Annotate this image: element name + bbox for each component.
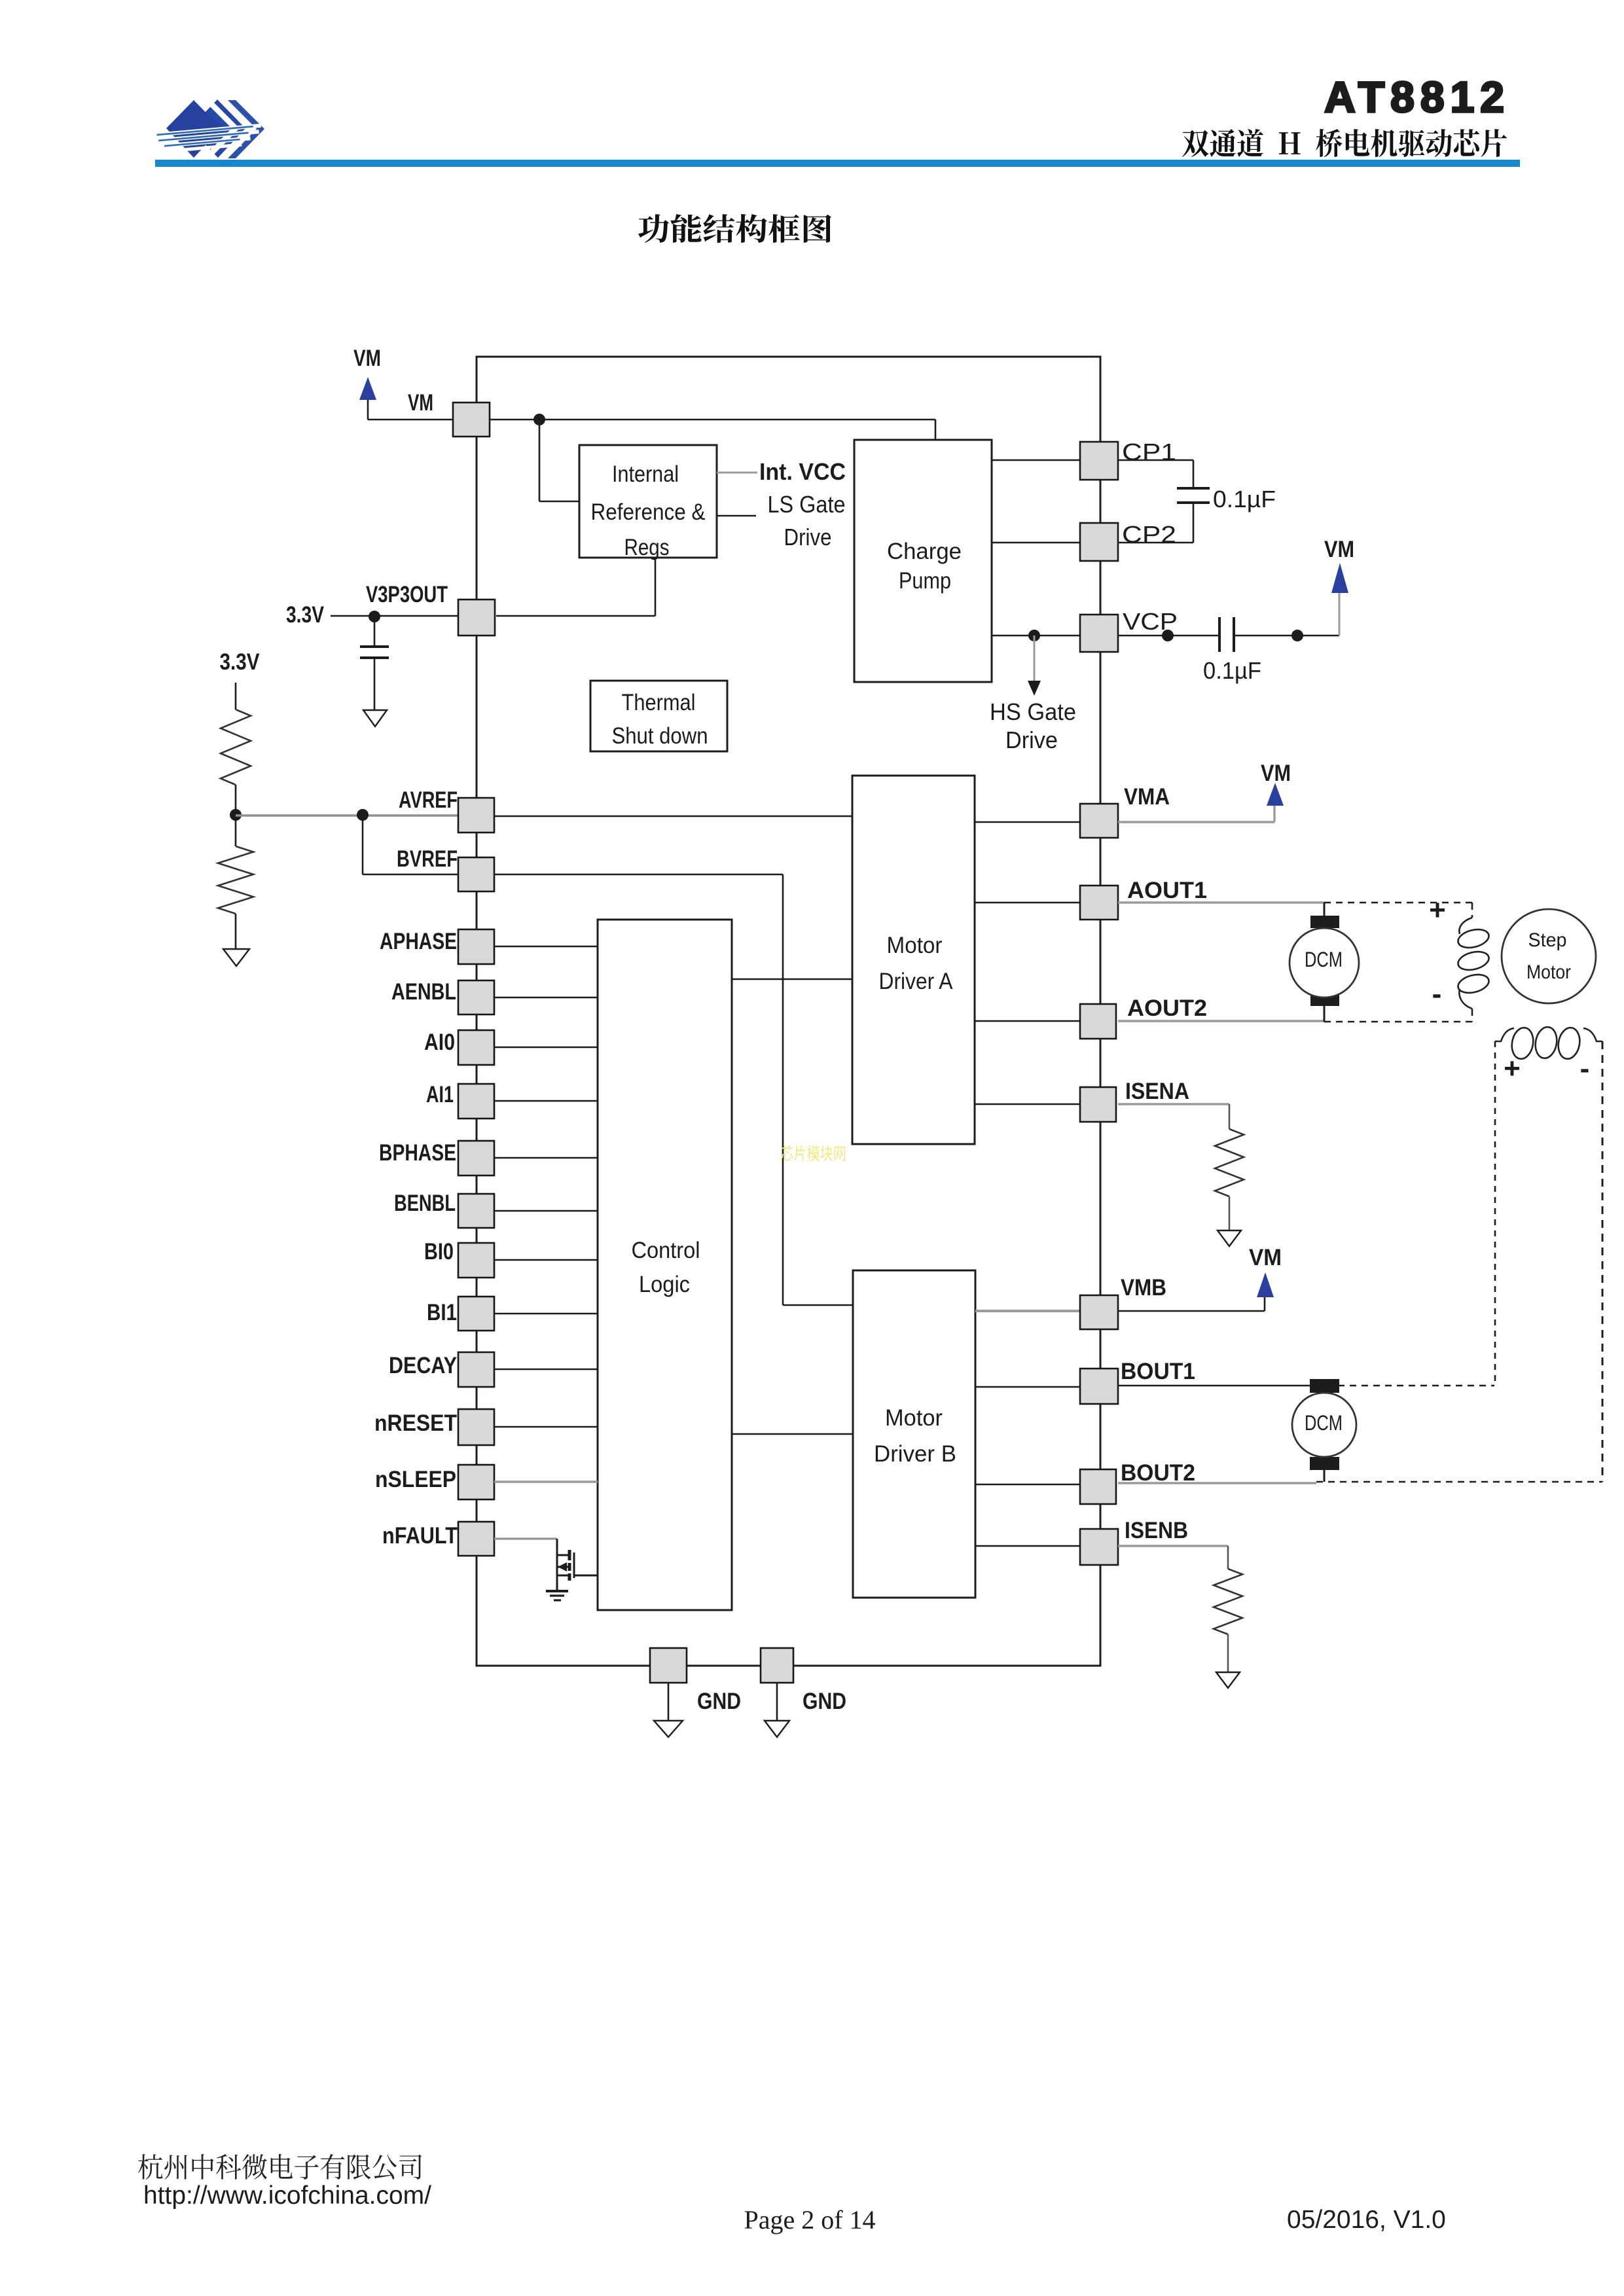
svg-text:AI1: AI1 xyxy=(426,1082,454,1107)
svg-text:3.3V: 3.3V xyxy=(286,602,325,628)
capacitor C1 (V3P3OUT bypass) xyxy=(374,617,376,647)
hs gate drive arrow xyxy=(1034,636,1036,682)
pin GND1 xyxy=(650,1648,687,1683)
pin nRESET xyxy=(458,1409,494,1445)
wire motor driver B to ISENB xyxy=(975,1545,1081,1547)
resistor R2 (lower divider) xyxy=(218,846,253,914)
wire AENBL to control logic xyxy=(494,997,598,999)
block U3 Charge Pump xyxy=(854,440,992,682)
node VM junction xyxy=(533,414,545,425)
wire motor driver B to BOUT1 xyxy=(975,1386,1080,1388)
motor Step Motor xyxy=(1502,909,1596,1003)
wire BENBL to control logic xyxy=(494,1210,598,1212)
svg-text:VMB: VMB xyxy=(1121,1275,1166,1300)
wire nSLEEP to control logic xyxy=(494,1480,598,1482)
wire AVREF pin to motor driver A xyxy=(494,816,852,817)
pin ISENA xyxy=(1080,1087,1116,1122)
block U1 Internal Reference and Regs xyxy=(579,445,717,558)
wire VM arrow to VM pin xyxy=(367,400,369,420)
svg-text:-: - xyxy=(1432,978,1442,1010)
watermark xyxy=(781,1145,845,1161)
wire dashed AOUT2 net xyxy=(1324,1021,1474,1022)
svg-text:VM: VM xyxy=(408,390,433,416)
resistor R3 (ISENA sense) xyxy=(1215,1129,1244,1196)
wire VMA to VM arrow xyxy=(1118,821,1274,823)
wire GND1 stem xyxy=(668,1683,670,1721)
wire nRESET to control logic xyxy=(494,1426,598,1428)
capacitor C3 (VCP-VM) xyxy=(1218,617,1221,652)
power VM arrow (VCP) xyxy=(1331,563,1348,593)
wire charge pump to VCP xyxy=(992,635,1080,637)
wire stub AOUT1 to DCM A xyxy=(1324,903,1326,916)
ground (R3) xyxy=(1218,1230,1241,1246)
pin AI1 xyxy=(458,1084,494,1119)
svg-text:Driver A: Driver A xyxy=(879,969,954,994)
wire 3.3V to V3P3OUT pin xyxy=(331,615,458,617)
wire motor driver A to AOUT2 xyxy=(975,1020,1080,1022)
wire R4 to ground xyxy=(1227,1634,1229,1672)
svg-text:3.3V: 3.3V xyxy=(220,649,261,675)
svg-text:Shut down: Shut down xyxy=(612,723,708,749)
pin VM xyxy=(453,403,490,437)
wire 3.3V to R1 xyxy=(235,683,237,709)
svg-text:AI0: AI0 xyxy=(424,1030,455,1055)
svg-text:AOUT2: AOUT2 xyxy=(1127,996,1207,1021)
wire control logic to motor driver A xyxy=(732,978,852,980)
wire R2 to ground xyxy=(235,914,237,949)
inductor winding B xyxy=(1495,1026,1602,1061)
svg-text:VM: VM xyxy=(1324,537,1354,562)
wire BI1 to control logic xyxy=(494,1313,598,1315)
svg-text:Reference &: Reference & xyxy=(591,499,706,525)
pin BI1 xyxy=(458,1297,494,1331)
company logo xyxy=(155,98,264,160)
block U5 Control Logic xyxy=(598,920,732,1610)
wire nFAULT to transistor Q1 xyxy=(494,1537,557,1539)
svg-text:VM: VM xyxy=(353,346,381,371)
pin BOUT1 xyxy=(1080,1369,1118,1404)
svg-text:Motor: Motor xyxy=(887,933,943,958)
pin AVREF xyxy=(458,798,494,833)
pin BENBL xyxy=(458,1194,494,1228)
wire AOUT1 to motor xyxy=(1118,901,1324,903)
pin VCP xyxy=(1080,615,1118,652)
wire VCP to capacitor C3 xyxy=(1118,635,1219,637)
wire BI0 to control logic xyxy=(494,1259,598,1261)
svg-text:Motor: Motor xyxy=(885,1405,943,1431)
pin AOUT1 xyxy=(1080,886,1118,920)
pin CP2 xyxy=(1080,523,1118,561)
wire motor driver A to AOUT1 xyxy=(975,902,1080,904)
svg-text:BI0: BI0 xyxy=(424,1239,454,1265)
svg-text:Drive: Drive xyxy=(1005,726,1058,753)
page title 功能结构框图 xyxy=(638,214,831,243)
svg-text:HS Gate: HS Gate xyxy=(990,698,1076,725)
svg-text:GND: GND xyxy=(803,1689,846,1714)
wire C3 to VM arrow xyxy=(1235,635,1339,637)
wire motor driver A to VMA xyxy=(975,821,1081,823)
wire motor driver B to BOUT2 xyxy=(975,1484,1080,1486)
pin APHASE xyxy=(458,929,494,964)
svg-text:AVREF: AVREF xyxy=(399,787,458,813)
svg-text:Drive: Drive xyxy=(784,524,832,550)
wire Int VCC output xyxy=(717,472,757,474)
node divider tap xyxy=(230,809,242,821)
svg-text:BOUT2: BOUT2 xyxy=(1121,1460,1195,1486)
wire dashed winding B left xyxy=(1494,1041,1496,1386)
pin nSLEEP xyxy=(458,1465,494,1499)
svg-text:BOUT1: BOUT1 xyxy=(1121,1359,1195,1384)
svg-text:LS Gate: LS Gate xyxy=(768,491,846,518)
svg-text:DCM: DCM xyxy=(1305,1411,1343,1435)
wire R3 to ground xyxy=(1229,1196,1231,1230)
power VM arrow (VMB) xyxy=(1257,1272,1274,1297)
svg-text:Regs: Regs xyxy=(624,535,670,560)
svg-text:Int. VCC: Int. VCC xyxy=(759,458,846,485)
ground (C1) xyxy=(363,710,387,726)
block U2 Thermal Shut down xyxy=(590,681,727,751)
svg-text:nFAULT: nFAULT xyxy=(382,1523,458,1549)
pin VMA xyxy=(1080,804,1118,838)
svg-text:DCM: DCM xyxy=(1305,948,1343,971)
node VM junction right xyxy=(1291,630,1303,641)
svg-text:CP1: CP1 xyxy=(1122,439,1176,465)
ground (Q1 source) xyxy=(546,1590,568,1592)
wire LS gate drive output xyxy=(717,515,756,517)
wire AOUT2 to motor xyxy=(1118,1020,1324,1022)
wire VM junction to internal reference xyxy=(539,420,541,501)
svg-text:Driver B: Driver B xyxy=(874,1441,956,1467)
wire AI0 to control logic xyxy=(494,1047,598,1049)
power VM arrow (top left) xyxy=(359,377,376,400)
pin BI0 xyxy=(458,1243,494,1278)
wire BPHASE to control logic xyxy=(494,1157,598,1159)
wire charge pump to CP2 xyxy=(992,542,1080,544)
svg-text:APHASE: APHASE xyxy=(380,929,457,954)
svg-text:Internal: Internal xyxy=(612,461,679,487)
svg-text:ISENA: ISENA xyxy=(1125,1079,1189,1104)
block U6 Motor Driver B xyxy=(853,1270,975,1598)
inductor winding A xyxy=(1456,903,1491,1022)
wire stub DCM A to AOUT2 xyxy=(1324,1006,1326,1022)
ground (divider) xyxy=(223,949,249,966)
wire DECAY to control logic xyxy=(494,1369,598,1371)
svg-text:VM: VM xyxy=(1249,1245,1282,1270)
wire charge pump to CP1 xyxy=(992,459,1080,461)
wire internal reference to V3P3OUT pin xyxy=(655,558,657,616)
wire control logic to motor driver B xyxy=(732,1433,853,1435)
svg-text:BENBL: BENBL xyxy=(394,1191,456,1216)
node V3P3OUT junction xyxy=(369,611,380,622)
wire BOUT2 to motor xyxy=(1118,1482,1316,1484)
svg-text:Pump: Pump xyxy=(899,568,951,594)
svg-text:VM: VM xyxy=(1261,761,1291,786)
wire BOUT1 to motor xyxy=(1118,1385,1314,1387)
wire dashed BOUT2 net xyxy=(1316,1481,1602,1482)
svg-text:DECAY: DECAY xyxy=(389,1353,457,1378)
svg-text:Thermal: Thermal xyxy=(622,690,696,715)
pin AI0 xyxy=(458,1030,494,1065)
svg-text:BPHASE: BPHASE xyxy=(379,1140,456,1166)
pin BVREF xyxy=(458,857,494,891)
svg-text:nSLEEP: nSLEEP xyxy=(375,1467,456,1492)
wire divider tap to AVREF pin xyxy=(236,814,458,817)
svg-text:VMA: VMA xyxy=(1124,784,1170,810)
svg-text:BI1: BI1 xyxy=(427,1300,457,1325)
wire GND2 stem xyxy=(776,1683,778,1721)
wire VMB to VM arrow xyxy=(1118,1310,1265,1312)
svg-text:0.1µF: 0.1µF xyxy=(1213,486,1276,512)
wire AVREF branch to BVREF pin xyxy=(362,815,364,874)
pin BOUT2 xyxy=(1080,1469,1116,1504)
svg-text:CP2: CP2 xyxy=(1122,521,1176,548)
subtitle 双通道H桥电机驱动芯片 xyxy=(1182,129,1507,157)
footer company name xyxy=(138,2154,422,2179)
wire ISENA to R3 xyxy=(1118,1103,1229,1105)
wire dashed winding B right xyxy=(1602,1041,1604,1482)
transistor Q1 xyxy=(557,1539,598,1591)
capacitor C2 (flying cap CP1-CP2) xyxy=(1118,459,1193,461)
pin AOUT2 xyxy=(1080,1004,1116,1039)
pin BPHASE xyxy=(458,1141,494,1175)
node VCP junction xyxy=(1162,630,1174,641)
node AVREF branch xyxy=(357,809,369,821)
svg-text:Charge: Charge xyxy=(887,539,962,564)
ground (R4) xyxy=(1216,1672,1240,1688)
svg-text:ISENB: ISENB xyxy=(1125,1518,1188,1543)
svg-text:http://www.icofchina.com/: http://www.icofchina.com/ xyxy=(143,2181,431,2210)
svg-text:V3P3OUT: V3P3OUT xyxy=(366,582,448,607)
pin DECAY xyxy=(458,1352,494,1387)
pin AENBL xyxy=(458,980,494,1014)
svg-text:Motor: Motor xyxy=(1526,961,1571,983)
svg-text:nRESET: nRESET xyxy=(374,1410,457,1436)
wire ISENB to R4 xyxy=(1118,1545,1228,1547)
ground (GND2) xyxy=(765,1721,789,1737)
pin ISENB xyxy=(1080,1529,1118,1565)
pin VMB xyxy=(1080,1295,1118,1329)
resistor R4 (ISENB sense) xyxy=(1214,1569,1242,1634)
svg-text:05/2016, V1.0: 05/2016, V1.0 xyxy=(1287,2206,1446,2234)
pin GND2 xyxy=(761,1648,793,1683)
wire dashed BOUT1 net xyxy=(1314,1385,1494,1386)
pin CP1 xyxy=(1080,442,1118,480)
svg-text:Control: Control xyxy=(632,1238,700,1263)
pin nFAULT xyxy=(458,1522,494,1556)
svg-text:GND: GND xyxy=(697,1689,741,1714)
wire R1 to node xyxy=(235,785,237,846)
node HS gate junction xyxy=(1028,630,1040,641)
chip outline xyxy=(477,357,1100,1666)
svg-text:+: + xyxy=(1429,894,1446,926)
pin V3P3OUT xyxy=(458,600,495,636)
wire motor driver B to VMB xyxy=(975,1310,1081,1312)
svg-text:0.1µF: 0.1µF xyxy=(1203,657,1261,684)
wire AI1 to control logic xyxy=(494,1100,598,1102)
svg-text:-: - xyxy=(1580,1052,1590,1085)
svg-text:Logic: Logic xyxy=(639,1272,690,1297)
wire VM pin to charge pump xyxy=(490,419,935,421)
svg-text:+: + xyxy=(1504,1052,1521,1085)
motor DCM A xyxy=(1290,916,1359,1006)
ground (GND1) xyxy=(654,1721,683,1737)
svg-text:BVREF: BVREF xyxy=(397,846,458,872)
wire motor driver A to ISENA xyxy=(975,1103,1080,1105)
header rule xyxy=(155,160,1520,167)
block U4 Motor Driver A xyxy=(852,776,975,1144)
svg-text:Page 2 of 14: Page 2 of 14 xyxy=(744,2205,875,2234)
wire BVREF pin to motor driver B xyxy=(494,874,783,876)
wire dashed AOUT1 net xyxy=(1324,902,1474,903)
svg-text:AENBL: AENBL xyxy=(391,979,456,1005)
svg-text:AOUT1: AOUT1 xyxy=(1127,878,1207,903)
svg-text:AT8812: AT8812 xyxy=(1324,73,1510,121)
motor DCM B xyxy=(1292,1379,1356,1470)
wire stub DCM B to BOUT2 xyxy=(1324,1470,1326,1482)
wire APHASE to control logic xyxy=(494,946,598,948)
wire stem to VM arrow (VCP) xyxy=(1339,589,1341,636)
svg-text:Step: Step xyxy=(1528,929,1567,951)
resistor R1 (upper divider) xyxy=(221,709,251,785)
power VM arrow (VMA) xyxy=(1267,783,1284,806)
